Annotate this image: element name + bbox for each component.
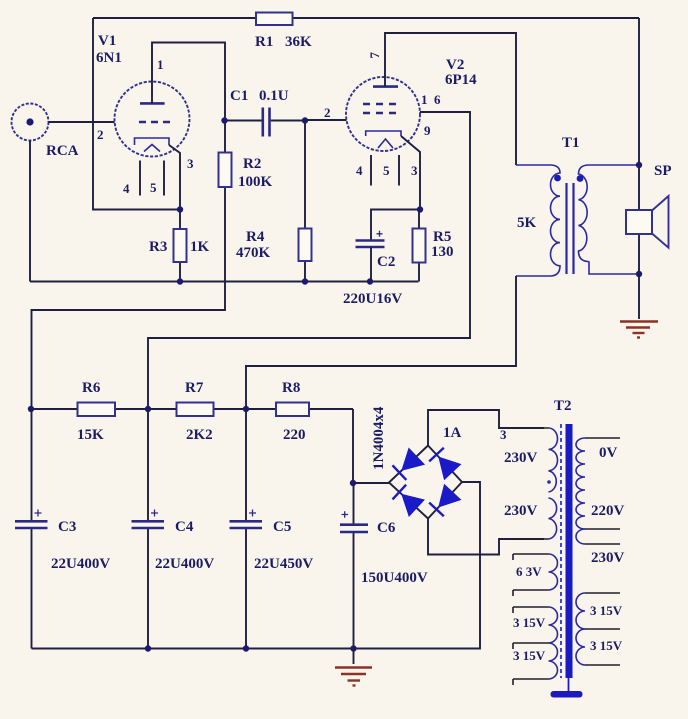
- wire: V2 plate to T1 primary top: [385, 33, 516, 165]
- svg-text:4: 4: [356, 163, 363, 178]
- C2 polarity +: [377, 231, 383, 237]
- wire: C1 left lead: [225, 120, 262, 122]
- triode V1 envelope: [115, 82, 190, 157]
- svg-text:2: 2: [324, 105, 331, 120]
- svg-text:3 15V: 3 15V: [590, 638, 623, 653]
- transformer T2 core (laminated): [566, 424, 573, 678]
- wire: B+ filter bus: [30, 408, 353, 410]
- node: R6/R7 C4 node: [145, 406, 151, 412]
- svg-text:1K: 1K: [190, 239, 210, 255]
- svg-text:22U400V: 22U400V: [155, 556, 214, 572]
- ground (bottom): [353, 649, 355, 665]
- T2 heater winding 6.3V: [513, 554, 549, 596]
- svg-text:22U450V: 22U450V: [254, 556, 313, 572]
- wire: V1 plate to coupling node: [152, 43, 225, 121]
- wire: bridge minus to ground rail: [462, 481, 480, 483]
- transformer T1 core: [567, 183, 574, 274]
- wire: bottom ground rail: [32, 482, 481, 649]
- svg-text:R8: R8: [282, 380, 300, 396]
- svg-text:220U16V: 220U16V: [343, 291, 402, 307]
- T2 heater winding 3.15V (left upper): [513, 607, 549, 649]
- svg-text:T1: T1: [562, 135, 580, 151]
- T2 winding joint dot: [547, 480, 551, 484]
- node: R7/R8 C5 node: [243, 406, 249, 412]
- V2 cathode: [366, 131, 401, 136]
- svg-text:3 15V: 3 15V: [513, 615, 546, 630]
- C3 polarity +: [35, 510, 42, 517]
- wire: V2 cathode to C2/R5 junction: [371, 136, 420, 240]
- svg-text:1: 1: [421, 92, 428, 107]
- wire: bridge AC top to T2 primary tap 3: [428, 410, 544, 446]
- V2 control grid (dashed): [363, 112, 396, 115]
- T2 secondary 230V tap: [576, 529, 585, 544]
- node: C6 bottom / ground stem on rail: [350, 645, 356, 651]
- capacitor C5: [245, 409, 247, 649]
- V1 heater pin 5 stub: [163, 161, 165, 196]
- svg-text:130: 130: [431, 244, 454, 260]
- svg-text:R2: R2: [243, 156, 261, 172]
- node: V1 cathode / R3 junction: [177, 206, 183, 212]
- node: C2 bottom on ground bus: [367, 278, 373, 284]
- svg-text:0V: 0V: [599, 445, 618, 461]
- svg-text:6N1: 6N1: [96, 50, 122, 66]
- svg-text:R4: R4: [246, 229, 265, 245]
- svg-text:R5: R5: [433, 229, 451, 245]
- V2 heater pin 4 stub: [370, 155, 372, 186]
- V1 cathode: [135, 138, 170, 145]
- svg-text:T2: T2: [554, 398, 572, 414]
- V1 grid (dashed): [139, 121, 170, 124]
- svg-text:5: 5: [383, 163, 390, 178]
- T2 heater winding 3.15V (left lower): [549, 643, 558, 679]
- resistor R2: [32, 120, 226, 409]
- capacitor C6: [353, 483, 355, 649]
- svg-text:C2: C2: [377, 254, 395, 270]
- svg-text:V2: V2: [446, 57, 464, 73]
- svg-text:230V: 230V: [591, 550, 625, 566]
- V2 plate: [373, 85, 398, 88]
- transformer T1 secondary winding: [579, 165, 640, 274]
- T1 primary phase dot: [554, 175, 561, 182]
- svg-text:230V: 230V: [504, 450, 538, 466]
- node: C6 / bridge + node: [350, 480, 356, 486]
- wire: C1 right lead to V2 grid node: [271, 120, 305, 122]
- svg-text:100K: 100K: [238, 174, 273, 190]
- node: R3 bottom on ground bus: [177, 278, 183, 284]
- V2 heater pin 5 stub: [398, 155, 400, 186]
- T2 secondary HV winding: [585, 437, 620, 439]
- svg-text:15K: 15K: [77, 427, 104, 443]
- capacitor C4: [147, 409, 149, 649]
- V1 heater: [144, 145, 160, 152]
- svg-text:3: 3: [411, 163, 418, 178]
- node: V1 plate / C1 / R2 junction: [221, 117, 227, 123]
- svg-text:4: 4: [123, 181, 130, 196]
- wire: V2 screen to C4 supply node: [148, 112, 470, 409]
- svg-text:RCA: RCA: [46, 143, 79, 159]
- svg-text:C4: C4: [175, 519, 194, 535]
- RCA input jack: [12, 104, 49, 141]
- svg-text:1N4004x4: 1N4004x4: [371, 406, 387, 470]
- resistor R4: [304, 120, 306, 282]
- T2 heater winding 3.15V (right upper): [585, 593, 620, 629]
- svg-text:9: 9: [424, 123, 431, 138]
- svg-text:R7: R7: [185, 380, 204, 396]
- svg-text:220: 220: [283, 427, 306, 443]
- svg-text:C1: C1: [230, 88, 248, 104]
- resistor R3: [179, 210, 181, 282]
- wire: speaker bottom to ground: [638, 274, 640, 319]
- svg-text:150U400V: 150U400V: [361, 570, 428, 586]
- node: C3 / R6 left supply node: [28, 406, 34, 412]
- svg-text:230V: 230V: [504, 503, 538, 519]
- wire: C2 bottom to ground bus: [370, 247, 372, 282]
- T2 secondary 220V tap: [585, 528, 620, 530]
- V2 screen grid (dashed): [363, 103, 396, 106]
- ground (right): [620, 322, 658, 338]
- C4 polarity +: [151, 510, 158, 517]
- C5 polarity +: [249, 510, 256, 517]
- svg-text:5K: 5K: [517, 215, 537, 231]
- svg-text:R6: R6: [82, 380, 101, 396]
- capacitor C2: [356, 241, 385, 248]
- svg-text:3 15V: 3 15V: [590, 603, 623, 618]
- resistor R6: [78, 403, 116, 417]
- wire: bridge AC bottom to T2 primary 230V bottom: [428, 519, 544, 555]
- svg-text:C6: C6: [377, 520, 396, 536]
- node: speaker top: [636, 162, 642, 168]
- wire: V2 grid from C1 node: [305, 119, 347, 121]
- svg-text:0.1U: 0.1U: [259, 88, 289, 104]
- wire: T1 primary bottom to C5 supply node: [246, 276, 516, 409]
- T2 core ground stem: [568, 678, 570, 691]
- transformer T1 primary winding: [516, 165, 560, 276]
- resistor R8: [276, 403, 309, 417]
- T1 secondary phase dot: [577, 175, 584, 182]
- diode D3 (lower-left): [393, 485, 425, 516]
- svg-text:36K: 36K: [285, 34, 312, 50]
- diode D4 (lower-right): [429, 485, 460, 517]
- svg-text:3: 3: [187, 156, 194, 171]
- svg-text:2: 2: [97, 127, 104, 142]
- svg-text:2K2: 2K2: [186, 427, 213, 443]
- resistor R1: [256, 13, 293, 26]
- wire: left rail from top bus down to V1 cathode junction: [93, 18, 180, 210]
- resistor R5: [418, 210, 420, 282]
- svg-text:470K: 470K: [236, 245, 271, 261]
- svg-text:6 3V: 6 3V: [516, 564, 542, 579]
- node: R4 bottom on ground bus: [302, 278, 308, 284]
- node: C5 bottom on rail: [243, 645, 249, 651]
- svg-text:6P14: 6P14: [445, 72, 477, 88]
- V2 heater: [378, 139, 393, 148]
- resistor R7: [177, 403, 214, 417]
- svg-text:3 15V: 3 15V: [513, 648, 546, 663]
- wire: V1 cathode to pin-3 junction: [169, 145, 180, 210]
- capacitor C3: [31, 409, 33, 649]
- diode D1 (upper-left): [393, 448, 425, 480]
- svg-text:22U400V: 22U400V: [51, 556, 110, 572]
- bridge rectifier diamond: [389, 446, 462, 519]
- wire: R8 output to C6 / bridge plus node: [353, 409, 389, 483]
- wire: RCA shell down to ground bus: [29, 141, 31, 282]
- svg-text:3: 3: [500, 427, 507, 442]
- wire: top feedback bus from left rail through R1 to speaker rail: [93, 17, 639, 19]
- pentode V2 envelope: [346, 77, 420, 151]
- svg-text:R3: R3: [149, 239, 167, 255]
- capacitor C1: [263, 108, 270, 137]
- svg-text:R1: R1: [255, 34, 273, 50]
- node: speaker bottom: [636, 271, 642, 277]
- T2 core ground bar: [551, 691, 583, 698]
- svg-text:1: 1: [157, 57, 164, 72]
- svg-text:5: 5: [150, 180, 157, 195]
- svg-text:1A: 1A: [443, 425, 462, 441]
- svg-text:C3: C3: [58, 519, 76, 535]
- T2 primary winding 230V (top): [512, 427, 549, 429]
- svg-text:7: 7: [367, 52, 382, 59]
- svg-text:V1: V1: [98, 33, 116, 49]
- V1 heater pin 4 stub: [139, 161, 141, 196]
- speaker SP: [626, 210, 652, 234]
- node: C4 bottom on rail: [145, 645, 151, 651]
- node: C1 / R4 / V2 grid junction: [302, 117, 308, 123]
- node: V2 cathode junction: [417, 206, 423, 212]
- svg-text:220V: 220V: [591, 503, 625, 519]
- svg-text:SP: SP: [654, 163, 672, 179]
- svg-text:C5: C5: [273, 519, 291, 535]
- ground bus wire: [30, 281, 419, 283]
- wire: RCA to V1 grid: [49, 121, 115, 123]
- T2 primary winding 230V (bottom): [549, 498, 557, 539]
- diode D2 (upper-right): [429, 448, 460, 480]
- T2 heater winding 3.15V (right lower): [585, 664, 620, 666]
- V1 plate: [140, 102, 165, 105]
- wire: speaker rail: [638, 165, 640, 274]
- C6 polarity +: [342, 511, 349, 518]
- svg-text:6: 6: [434, 92, 441, 107]
- wire: right rail from top bus down to speaker top node: [638, 18, 640, 165]
